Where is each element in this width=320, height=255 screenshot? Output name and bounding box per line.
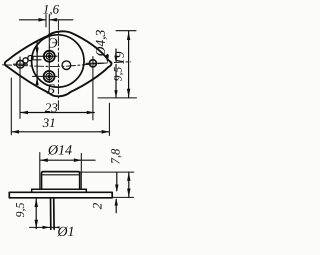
pin side view right edge: [53, 198, 55, 230]
E-B dim top arrow: [36, 48, 39, 57]
9,5 top arrow: [35, 198, 39, 207]
dim 1,6 line left segment: [20, 19, 46, 21]
dim 23 right arrow: [87, 111, 95, 115]
dim 2 lower arrow: [115, 198, 118, 206]
E-B dim bottom arrow: [36, 76, 39, 85]
small circle 1: [23, 58, 28, 63]
emitter pin E outer: [44, 51, 55, 62]
dim 31 right arrow: [102, 130, 110, 134]
right mounting hole: [89, 60, 96, 67]
collector hole circle: [62, 61, 71, 70]
can circle (cap, top view): [32, 35, 84, 87]
vertical centerline: [57, 21, 59, 111]
base pin B inner: [46, 73, 52, 79]
right hole vertical line / 23 extension: [92, 57, 94, 120]
pin side view left edge: [50, 198, 52, 230]
Ø14 left extension: [39, 153, 41, 190]
dim 19 line: [128, 31, 130, 97]
pin axis line: [48, 15, 50, 83]
left hole horizontal tick: [14, 63, 28, 65]
dim 7,8 top arrow: [127, 172, 130, 181]
label 31: [43, 118, 55, 127]
label Ø4,3: [96, 30, 107, 56]
dim 9,5 lower arrow: [114, 90, 117, 97]
dim 19 bottom arrow: [127, 89, 130, 98]
pin bottom extension line: [30, 226, 57, 228]
can body side view: [42, 172, 80, 190]
leader of Ø4,3: [106, 55, 108, 61]
flange side view: [9, 192, 112, 198]
centerline dash near E-B dim: [34, 59, 42, 61]
base pin B dot: [47, 75, 51, 79]
right hole horizontal tick: [86, 62, 104, 64]
dim 9,5 (pin length) line: [35, 198, 37, 228]
B pin tick: [33, 75, 58, 77]
dim 2 upper line: [116, 172, 118, 190]
dim 9,5 lower line: [115, 65, 117, 98]
dim 7,8 bottom arrow: [127, 189, 130, 198]
label 2: [93, 203, 102, 209]
emitter pin E inner: [46, 53, 52, 59]
dim 31 left arrow: [11, 130, 19, 134]
31 left extension line: [10, 78, 12, 135]
pin diameter left arrow: [43, 226, 51, 229]
dim 9,5 upper arrow: [114, 56, 117, 63]
extension tick of 1,6: [45, 15, 47, 28]
31 right extension line: [108, 103, 110, 135]
label 9,5 (half width): [114, 67, 123, 81]
dim Ø14 line: [40, 159, 95, 161]
leader arrow of Ø4,3: [106, 55, 109, 63]
Ø14 right arrow: [74, 158, 82, 162]
label 7,8: [111, 149, 121, 164]
horizontal centerline: [3, 62, 131, 67]
dim 7,8 line: [128, 172, 130, 197]
dim 1,6 right arrow: [49, 18, 57, 22]
can lid inner line: [42, 174, 79, 176]
can brim: [32, 189, 87, 192]
dim 2 upper arrow: [115, 185, 118, 193]
flange outline (top view): [5, 31, 112, 96]
dim 23 line: [20, 112, 94, 114]
Ø14 left arrow: [40, 158, 48, 162]
label Ø14: [48, 145, 72, 155]
top extension line for 19: [116, 30, 136, 32]
dim 19 top arrow: [127, 31, 130, 40]
dim 31 line: [11, 131, 109, 133]
label 1,6: [43, 5, 59, 16]
label 23: [45, 103, 58, 112]
dim 9,5 (half width) upper line: [115, 49, 117, 61]
label Э (emitter): [49, 38, 58, 47]
small circle 2: [28, 56, 33, 61]
Ø14 right extension: [80, 154, 82, 190]
E pin tick: [33, 55, 58, 57]
emitter pin E dot: [48, 54, 52, 58]
9,5 bottom arrow: [35, 220, 39, 229]
left mounting hole: [17, 60, 25, 68]
dim 23 left arrow: [20, 111, 28, 115]
label 19: [115, 52, 124, 64]
bottom extension line for 19: [98, 97, 137, 99]
label 9,5 (pin length): [16, 203, 26, 217]
dim 1,6 line right segment: [50, 19, 73, 21]
E-B spacing dim line: [36, 41, 38, 84]
dim 2 lower line: [115, 200, 117, 213]
base pin B outer: [44, 71, 55, 82]
label Ø1: [57, 226, 73, 236]
left hole vertical line / 23 extension: [19, 57, 21, 118]
label Б (base): [47, 85, 55, 94]
can top extension to right: [80, 171, 134, 173]
pin diameter right arrow: [54, 226, 59, 228]
flange bottom extension to right: [112, 196, 133, 198]
dim 1,6 left arrow: [39, 18, 47, 22]
